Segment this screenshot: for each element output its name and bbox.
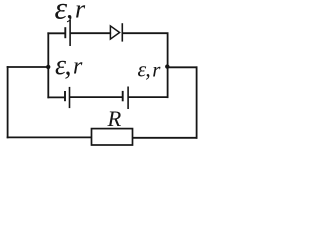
- diode D1 triangle: [110, 26, 119, 39]
- wire: outer bottom-left segment: [8, 136, 92, 138]
- battery B3 (middle branch right cell) short plate: [122, 91, 124, 101]
- label: EMF of middle-right cell (epsilon, r): [138, 56, 162, 81]
- node B (right junction dot): [165, 64, 169, 68]
- wire: outer left vertical: [7, 67, 9, 137]
- battery B2 long plate: [69, 87, 71, 108]
- label: EMF of middle-left cell (epsilon, r): [55, 50, 83, 81]
- label: EMF of top cell (epsilon, r): [55, 0, 87, 26]
- diode D1 cathode bar: [121, 23, 123, 41]
- wire: right branch vertical: [167, 33, 169, 97]
- svg-text:r: r: [152, 57, 161, 81]
- wire: outer top-right horizontal: [167, 66, 196, 68]
- wire: middle branch left of battery 1: [48, 96, 64, 98]
- wire: middle branch between batteries: [70, 96, 122, 98]
- wire: middle branch battery 2 to corner: [129, 96, 168, 98]
- wire: outer top-left horizontal: [8, 66, 48, 68]
- svg-text:,: ,: [145, 56, 151, 81]
- resistor R box: [92, 129, 133, 145]
- wire: top branch battery to diode: [71, 32, 110, 34]
- battery B1 long plate: [69, 20, 71, 46]
- node A (left junction dot): [46, 65, 50, 69]
- battery B3 long plate: [127, 87, 129, 110]
- svg-text:r: r: [75, 0, 86, 23]
- svg-text:r: r: [73, 54, 83, 80]
- battery B1 (top branch, EMF cell) short plate: [64, 27, 66, 38]
- wire: top branch left of battery: [48, 32, 64, 34]
- wire: outer right vertical: [196, 67, 198, 138]
- wire: top branch diode to corner: [124, 32, 168, 34]
- battery B2 (middle branch left cell) short plate: [64, 91, 66, 101]
- wire: left branch vertical: [47, 33, 49, 97]
- wire: outer bottom-right segment: [133, 137, 197, 139]
- svg-text:,: ,: [66, 0, 73, 25]
- svg-text:,: ,: [65, 50, 72, 81]
- svg-text:R: R: [107, 106, 122, 131]
